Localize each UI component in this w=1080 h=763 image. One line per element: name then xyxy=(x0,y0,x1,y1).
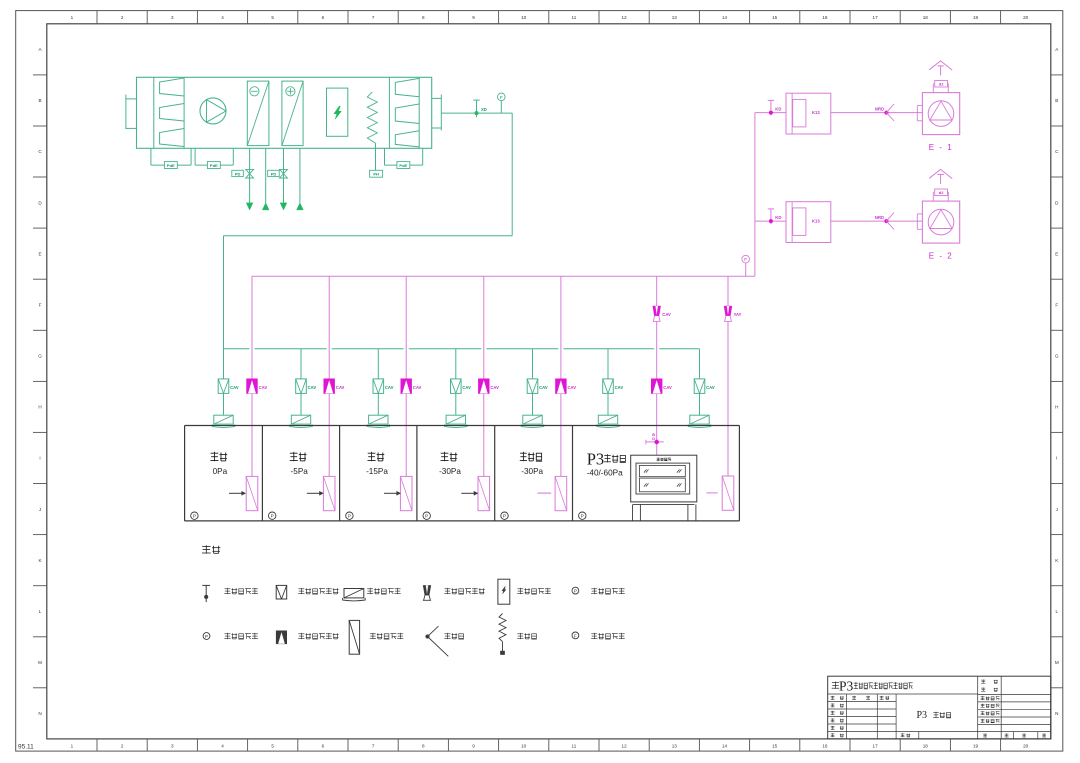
svg-text:4: 4 xyxy=(221,743,224,748)
svg-text:CAV: CAV xyxy=(490,385,499,390)
svg-text:PD: PD xyxy=(271,171,277,176)
room 4 airflow arrow xyxy=(461,491,478,495)
room 2 pressure sensor P xyxy=(269,512,276,519)
supply pressure sensor F xyxy=(498,93,506,113)
legend HEPA supply outlet xyxy=(343,588,401,601)
supply header duct xyxy=(224,348,700,350)
svg-text:10: 10 xyxy=(521,15,527,20)
svg-text:PD: PD xyxy=(235,171,241,176)
svg-text:KD: KD xyxy=(775,215,781,220)
svg-text:6: 6 xyxy=(322,743,325,748)
svg-text:PdE: PdE xyxy=(399,163,407,168)
room 5 pressure sensor P xyxy=(501,512,508,519)
svg-text:NRD: NRD xyxy=(875,215,884,220)
svg-text:95.11: 95.11 xyxy=(18,744,34,751)
svg-text:8: 8 xyxy=(422,15,425,20)
room 6 pressure sensor P xyxy=(579,512,586,519)
svg-text:P: P xyxy=(581,514,584,519)
dP sensor bracket 2 xyxy=(195,148,233,168)
room 1 labels xyxy=(210,452,227,476)
svg-text:CAV: CAV xyxy=(462,385,471,390)
legend dP sensor P row2 xyxy=(203,633,258,640)
svg-text:2: 2 xyxy=(121,15,124,20)
AHU electric humidifier xyxy=(327,88,348,136)
room 5 airflow dash xyxy=(537,492,551,494)
AHU filter sawtooth left xyxy=(160,77,185,148)
svg-text:E: E xyxy=(1055,251,1058,256)
hot water pipe 4 xyxy=(297,148,304,210)
svg-text:PdE: PdE xyxy=(210,163,218,168)
svg-text:-30Pa: -30Pa xyxy=(439,467,461,476)
svg-text:-15Pa: -15Pa xyxy=(366,467,388,476)
svg-text:CAV: CAV xyxy=(230,385,239,390)
svg-text:7: 7 xyxy=(372,743,375,748)
svg-text:P3: P3 xyxy=(839,679,854,694)
AHU heating coil xyxy=(367,92,377,170)
svg-text:N: N xyxy=(38,711,41,716)
svg-text:P: P xyxy=(503,514,506,519)
exhaust branch 6 venturi CAV to BSC xyxy=(646,276,672,455)
room 3 pressure sensor P xyxy=(346,512,353,519)
svg-text:G: G xyxy=(38,354,42,359)
svg-text:P3: P3 xyxy=(587,450,604,469)
room 2 labels xyxy=(290,452,309,476)
supply branch 5 CAV valve and HEPA outlet xyxy=(521,349,548,428)
svg-text:L: L xyxy=(39,609,42,614)
AHU filter cell plus xyxy=(282,81,303,146)
legend electric heater xyxy=(499,614,537,655)
svg-text:NRD: NRD xyxy=(875,106,884,111)
title block small labels xyxy=(831,680,1047,738)
svg-text:P: P xyxy=(193,514,196,519)
svg-text:0Pa: 0Pa xyxy=(213,467,228,476)
svg-text:13: 13 xyxy=(672,743,678,748)
svg-text:9: 9 xyxy=(472,743,475,748)
svg-text:P: P xyxy=(271,514,274,519)
svg-text:YAY: YAY xyxy=(734,312,742,317)
chilled water pipe 2 xyxy=(262,148,269,210)
svg-text:I: I xyxy=(39,456,40,461)
title block project name xyxy=(917,710,952,721)
svg-text:F: F xyxy=(744,257,747,263)
AHU filter sawtooth right xyxy=(395,77,419,148)
svg-text:CAV: CAV xyxy=(259,385,268,390)
room 1 pressure sensor P xyxy=(191,512,198,519)
svg-text:4: 4 xyxy=(221,15,224,20)
svg-text:M: M xyxy=(38,660,42,665)
svg-text:14: 14 xyxy=(722,743,728,748)
svg-text:K13: K13 xyxy=(812,110,820,115)
svg-text:14: 14 xyxy=(722,15,728,20)
svg-text:E - 1: E - 1 xyxy=(929,143,953,152)
svg-text:P: P xyxy=(348,514,351,519)
svg-text:CAV: CAV xyxy=(663,385,672,390)
title block xyxy=(828,676,1051,739)
svg-text:K13: K13 xyxy=(812,219,820,224)
svg-text:17: 17 xyxy=(873,15,879,20)
svg-text:5: 5 xyxy=(271,15,274,20)
svg-text:M: M xyxy=(1055,660,1059,665)
exhaust branch 7 YAY venturi to room grille xyxy=(706,276,741,510)
svg-text:F: F xyxy=(1055,302,1058,307)
svg-text:E: E xyxy=(38,251,41,256)
svg-text:15: 15 xyxy=(772,15,778,20)
dP sensor bracket 3 xyxy=(385,148,423,168)
svg-text:B: B xyxy=(38,98,41,103)
room row walls xyxy=(185,426,740,521)
room 5 labels xyxy=(520,452,544,476)
svg-text:16: 16 xyxy=(822,743,828,748)
svg-text:PdE: PdE xyxy=(167,163,175,168)
svg-text:CAV: CAV xyxy=(308,385,317,390)
svg-text:CAV: CAV xyxy=(706,385,715,390)
svg-text:CAV: CAV xyxy=(568,385,577,390)
svg-text:J: J xyxy=(39,507,41,512)
exhaust main duct xyxy=(252,113,755,277)
svg-text:D: D xyxy=(652,437,655,441)
dP sensor bracket 1 xyxy=(151,148,191,168)
svg-text:H: H xyxy=(38,405,41,410)
svg-text:19: 19 xyxy=(973,743,979,748)
legend exhaust venturi valve xyxy=(423,585,485,600)
svg-text:XD: XD xyxy=(481,107,487,112)
svg-text:10: 10 xyxy=(521,743,527,748)
svg-text:1: 1 xyxy=(71,743,74,748)
svg-text:d2: d2 xyxy=(939,190,944,195)
exhaust fan E-2 xyxy=(755,169,960,260)
svg-text:L: L xyxy=(1056,609,1059,614)
svg-text:d2: d2 xyxy=(939,82,944,87)
legend airflow sensor F xyxy=(572,632,625,639)
svg-text:3: 3 xyxy=(171,743,174,748)
svg-text:19: 19 xyxy=(973,15,979,20)
svg-text:18: 18 xyxy=(923,743,929,748)
exhaust branch 4 CAV valve and HEPA grille xyxy=(478,276,499,510)
legend HEPA exhaust grille xyxy=(349,620,403,654)
svg-text:6: 6 xyxy=(322,15,325,20)
svg-text:F: F xyxy=(500,95,503,101)
svg-text:3: 3 xyxy=(171,15,174,20)
room P3 labels xyxy=(587,450,626,478)
legend check valve xyxy=(426,626,464,656)
svg-text:J: J xyxy=(1056,507,1058,512)
room 4 pressure sensor P xyxy=(423,512,430,519)
svg-text:-40/-60Pa: -40/-60Pa xyxy=(587,468,623,477)
supply branch 6 CAV valve and HEPA outlet xyxy=(597,349,624,428)
exhaust branch 5 CAV valve and HEPA grille xyxy=(555,276,576,510)
supply duct sensor XD xyxy=(473,100,487,117)
svg-text:I: I xyxy=(1056,456,1057,461)
supply duct main xyxy=(224,113,513,379)
svg-text:20: 20 xyxy=(1023,743,1029,748)
chilled water pipe 1 with valve xyxy=(232,148,254,210)
room 3 airflow arrow xyxy=(384,491,401,495)
AHU filter cell minus xyxy=(247,81,269,146)
title text xyxy=(832,679,913,694)
svg-text:CAV: CAV xyxy=(615,385,624,390)
exhaust branch 2 CAV valve and HEPA grille xyxy=(323,276,344,510)
svg-text:PH: PH xyxy=(373,172,379,177)
svg-text:CAV: CAV xyxy=(662,312,671,317)
svg-text:13: 13 xyxy=(672,15,678,20)
legend bio sealing valve xyxy=(202,585,258,602)
supply branch 4 CAV valve and HEPA outlet xyxy=(445,349,472,428)
svg-text:CAV: CAV xyxy=(385,385,394,390)
svg-text:20: 20 xyxy=(1023,15,1029,20)
svg-text:11: 11 xyxy=(572,15,577,20)
legend exhaust CAV valve xyxy=(276,631,338,644)
svg-text:B: B xyxy=(1055,98,1058,103)
AHU fan xyxy=(200,98,226,124)
svg-text:F: F xyxy=(574,633,577,638)
legend electrode humidifier xyxy=(498,579,551,604)
svg-text:H: H xyxy=(1055,405,1058,410)
svg-text:15: 15 xyxy=(772,743,778,748)
biosafety cabinet BSC xyxy=(631,455,697,521)
room 1 airflow arrow xyxy=(229,491,246,495)
svg-text:P3: P3 xyxy=(917,710,928,721)
svg-text:12: 12 xyxy=(622,15,628,20)
legend dP sensor P xyxy=(572,587,625,594)
svg-text:2: 2 xyxy=(121,743,124,748)
svg-text:F: F xyxy=(39,302,42,307)
svg-text:7: 7 xyxy=(372,15,375,20)
exhaust branch 1 CAV valve and HEPA grille xyxy=(246,276,267,510)
supply branch 3 CAV valve and HEPA outlet xyxy=(367,349,394,428)
hot water pipe 3 with valve xyxy=(268,148,288,210)
svg-text:9: 9 xyxy=(472,15,475,20)
legend title xyxy=(202,545,220,553)
svg-text:P: P xyxy=(574,589,577,594)
exhaust pressure sensor F xyxy=(742,255,750,276)
svg-text:16: 16 xyxy=(822,15,828,20)
svg-text:KD: KD xyxy=(775,107,781,112)
AHU casing xyxy=(126,77,441,148)
svg-text:18: 18 xyxy=(923,15,929,20)
svg-text:P: P xyxy=(205,634,208,639)
svg-text:1: 1 xyxy=(71,15,74,20)
exhaust branch 3 CAV valve and HEPA grille xyxy=(400,276,421,510)
svg-text:11: 11 xyxy=(572,743,577,748)
svg-text:17: 17 xyxy=(873,743,879,748)
svg-text:-30Pa: -30Pa xyxy=(521,467,543,476)
svg-text:E - 2: E - 2 xyxy=(929,252,953,261)
supply branch 1 CAV valve and HEPA outlet xyxy=(212,379,239,428)
supply branch 2 CAV valve and HEPA outlet xyxy=(290,349,317,428)
svg-text:5: 5 xyxy=(271,743,274,748)
svg-text:P: P xyxy=(425,514,428,519)
svg-text:CAV: CAV xyxy=(413,385,422,390)
svg-text:CAV: CAV xyxy=(336,385,345,390)
legend supply CAV valve xyxy=(276,585,338,599)
svg-text:CAV: CAV xyxy=(539,385,548,390)
room 4 labels xyxy=(439,452,461,476)
supply branch 7 CAV valve and HEPA outlet xyxy=(688,349,715,428)
svg-text:N: N xyxy=(1055,711,1058,716)
room 3 labels xyxy=(366,452,388,476)
room 2 airflow arrow xyxy=(307,491,324,495)
svg-text:-5Pa: -5Pa xyxy=(291,467,309,476)
svg-text:8: 8 xyxy=(422,743,425,748)
coil drain label box xyxy=(370,170,383,177)
svg-text:G: G xyxy=(1055,354,1059,359)
exhaust fan E-1 xyxy=(755,61,960,152)
svg-text:12: 12 xyxy=(622,743,628,748)
